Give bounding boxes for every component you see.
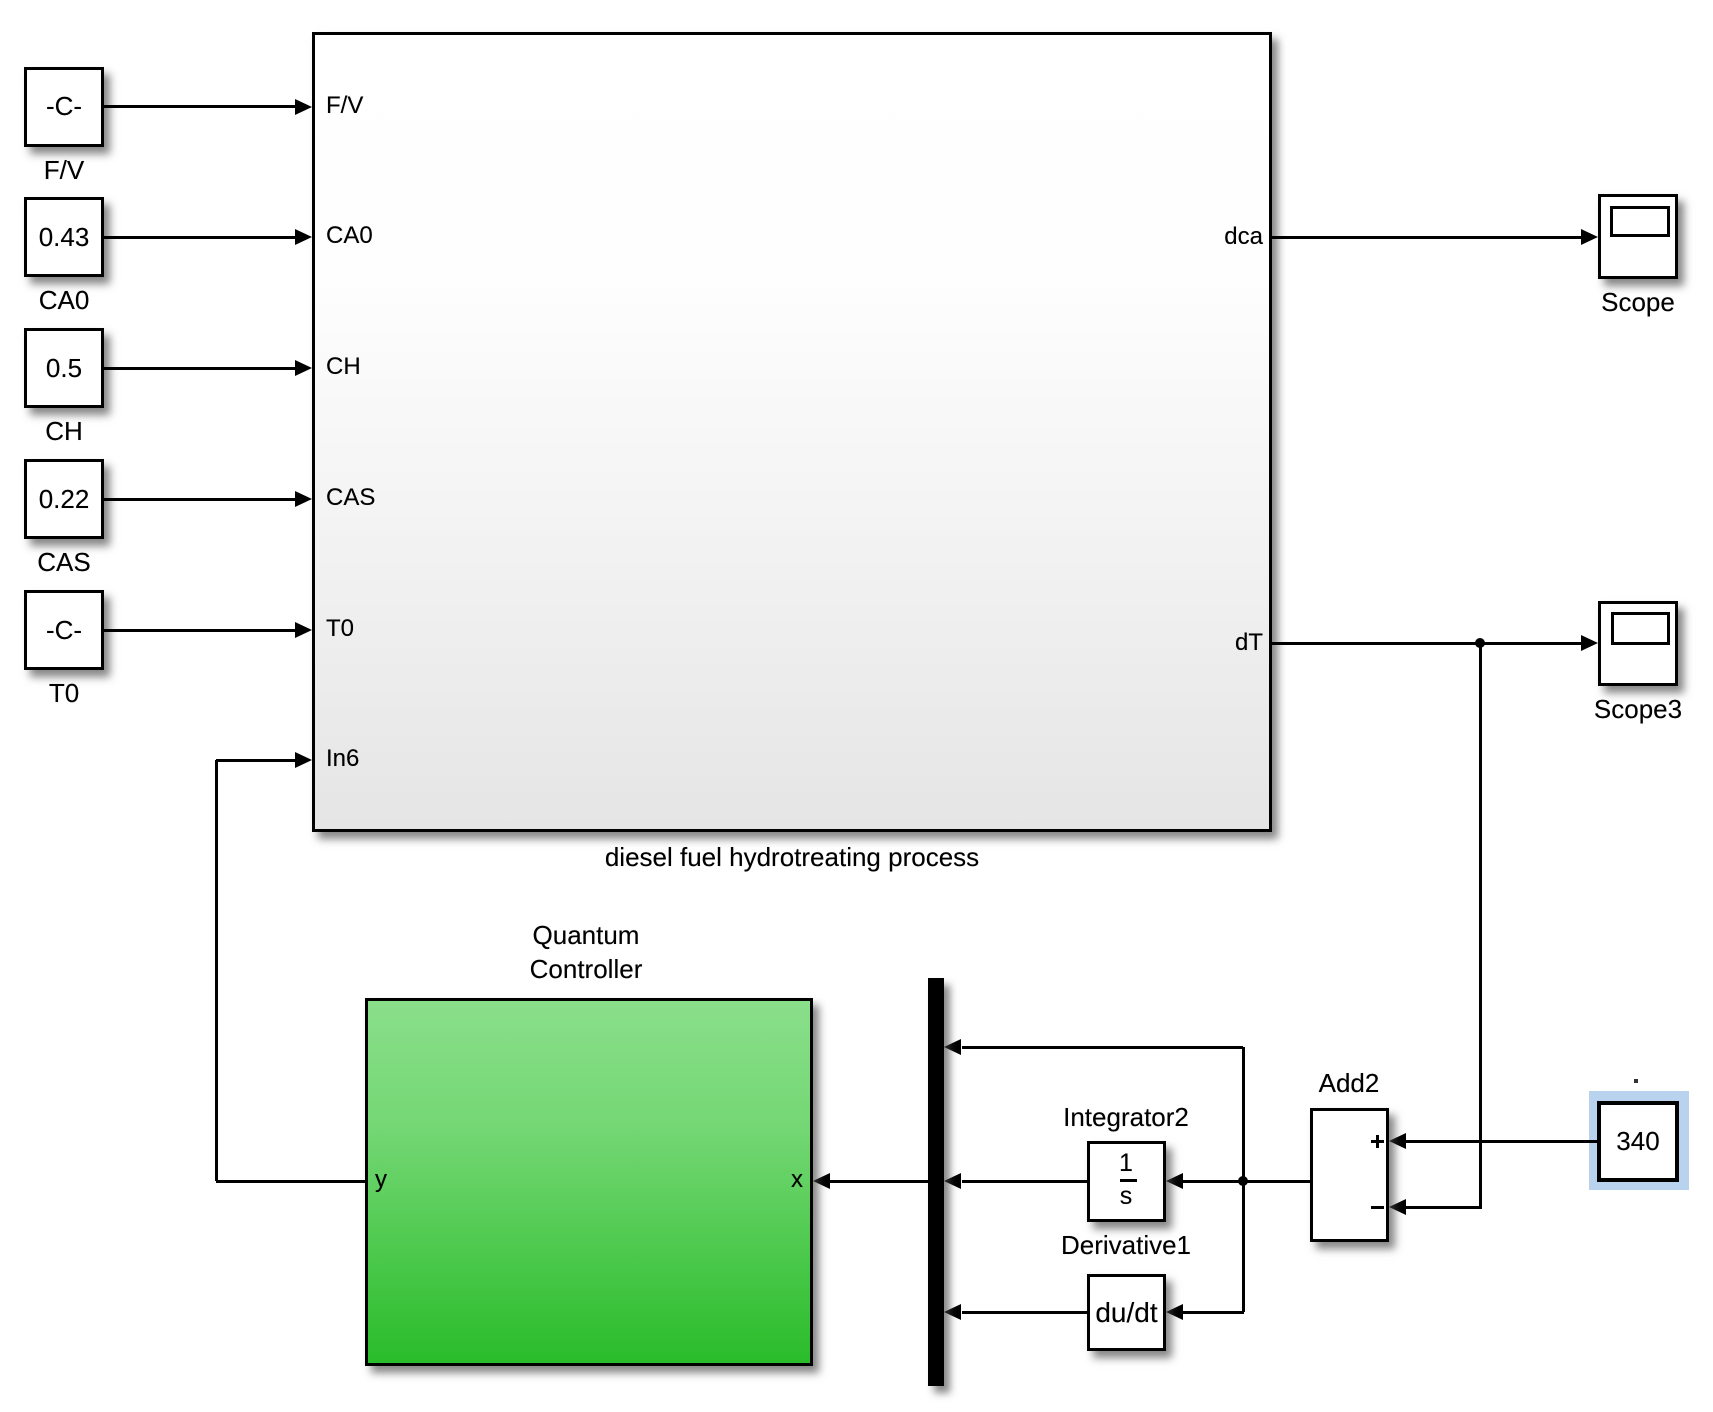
constant F/V bbox=[24, 67, 104, 147]
plus sign bbox=[1371, 1140, 1384, 1143]
port label In6 bbox=[326, 746, 359, 772]
subsystem caption bbox=[592, 842, 992, 872]
port label x bbox=[603, 1167, 803, 1193]
node junction on dT wire bbox=[1475, 638, 1485, 648]
port label CAS bbox=[326, 485, 375, 511]
constant T0 bbox=[24, 590, 104, 670]
wire T0 to subsystem bbox=[104, 629, 297, 632]
port label F/V bbox=[326, 93, 363, 119]
Scope3 block bbox=[1598, 601, 1678, 686]
dot label above 340 bbox=[1634, 1079, 1638, 1083]
port label CH bbox=[326, 354, 361, 380]
wire dT to Scope3 bbox=[1272, 642, 1582, 645]
port label dca bbox=[1060, 224, 1263, 250]
Quantum Controller block bbox=[365, 998, 813, 1366]
wire branch top to mux bbox=[962, 1046, 1243, 1049]
port label dT bbox=[1060, 630, 1263, 656]
wire dca to Scope bbox=[1272, 236, 1582, 239]
mux bar bbox=[928, 978, 944, 1386]
port label CA0 bbox=[326, 223, 373, 249]
constant CH bbox=[24, 328, 104, 408]
wire CH to subsystem bbox=[104, 367, 297, 370]
constant CA0 bbox=[24, 197, 104, 277]
constant 340 (selected) bbox=[1589, 1091, 1689, 1190]
wire derivative out to mux bbox=[962, 1311, 1087, 1314]
Derivative1 block bbox=[1087, 1274, 1166, 1351]
subsystem diesel fuel hydrotreating process bbox=[312, 32, 1272, 832]
wire mux out to controller x bbox=[830, 1180, 928, 1183]
wire controller y to In6 bbox=[216, 1180, 365, 1183]
wire integrator out to mux bbox=[962, 1180, 1087, 1183]
vertical branch wire bbox=[1242, 1047, 1245, 1312]
minus sign bbox=[1371, 1206, 1384, 1209]
Integrator2 block bbox=[1087, 1141, 1166, 1222]
wire CA0 to subsystem bbox=[104, 236, 297, 239]
constant CAS bbox=[24, 459, 104, 539]
wire dT junction down to Add2 minus bbox=[1479, 643, 1482, 1209]
wire CAS to subsystem bbox=[104, 498, 297, 501]
Add2 block bbox=[1310, 1108, 1389, 1242]
wire Add2 output to junction / integrator bbox=[1183, 1180, 1310, 1183]
wire F/V to subsystem bbox=[104, 105, 297, 108]
node junction on Add2 output bbox=[1238, 1176, 1248, 1186]
wire 340 to Add2 plus bbox=[1406, 1140, 1597, 1143]
port label y bbox=[375, 1167, 387, 1193]
Scope block bbox=[1598, 194, 1678, 279]
port label T0 bbox=[326, 616, 354, 642]
fraction 1/s bbox=[1026, 1150, 1226, 1176]
wire branch bottom to derivative bbox=[1183, 1311, 1244, 1314]
